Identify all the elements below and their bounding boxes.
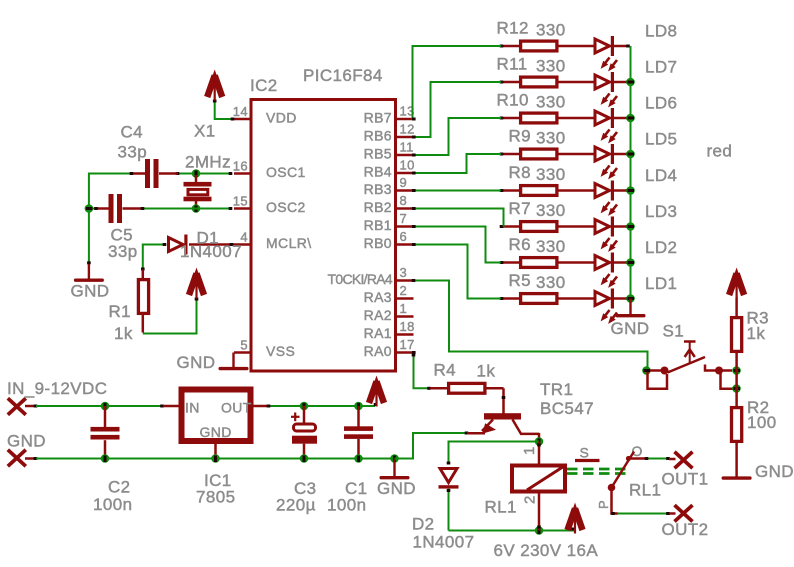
svg-text:2MHz: 2MHz — [185, 153, 231, 172]
svg-text:330: 330 — [536, 129, 566, 148]
svg-text:RB2: RB2 — [364, 199, 392, 215]
svg-text:GND: GND — [755, 462, 794, 481]
svg-text:OSC1: OSC1 — [266, 164, 306, 180]
svg-text:MCLR\: MCLR\ — [266, 235, 312, 251]
svg-text:RB5: RB5 — [364, 146, 392, 162]
svg-text:RB6: RB6 — [364, 128, 392, 144]
svg-text:LD5: LD5 — [645, 130, 677, 149]
svg-text:R11: R11 — [497, 55, 528, 74]
svg-text:18: 18 — [400, 319, 415, 334]
svg-text:100n: 100n — [327, 496, 366, 515]
svg-text:3: 3 — [400, 265, 408, 280]
svg-text:1k: 1k — [747, 324, 766, 343]
svg-text:330: 330 — [536, 273, 566, 292]
svg-text:OUT: OUT — [221, 400, 252, 416]
svg-text:10: 10 — [400, 158, 415, 173]
svg-text:7805: 7805 — [196, 488, 235, 507]
svg-text:220µ: 220µ — [276, 496, 316, 515]
svg-text:S: S — [580, 445, 590, 461]
svg-text:2: 2 — [400, 283, 408, 298]
svg-text:6V 230V 16A: 6V 230V 16A — [494, 541, 599, 560]
svg-text:IC2: IC2 — [250, 76, 278, 95]
svg-text:1N4007: 1N4007 — [413, 533, 475, 552]
svg-text:RL1: RL1 — [485, 498, 517, 517]
svg-text:PIC16F84: PIC16F84 — [303, 66, 383, 85]
svg-text:7: 7 — [400, 211, 408, 226]
svg-text:330: 330 — [536, 237, 566, 256]
svg-text:100: 100 — [747, 413, 777, 432]
svg-text:VSS: VSS — [266, 343, 295, 359]
svg-text:T0CKI/RA4: T0CKI/RA4 — [328, 271, 393, 287]
svg-text:33p: 33p — [108, 242, 138, 261]
svg-text:GND: GND — [177, 353, 216, 372]
svg-text:GND: GND — [377, 479, 416, 498]
svg-text:5: 5 — [240, 337, 248, 352]
svg-text:IN: IN — [185, 400, 200, 416]
svg-text:R12: R12 — [497, 19, 529, 38]
svg-text:11: 11 — [400, 140, 414, 155]
svg-text:OUT1: OUT1 — [662, 470, 709, 489]
svg-text:17: 17 — [400, 337, 415, 352]
svg-text:RB7: RB7 — [364, 110, 392, 126]
svg-text:GND: GND — [71, 282, 110, 301]
svg-text:RA1: RA1 — [364, 325, 392, 341]
svg-text:RB3: RB3 — [364, 181, 392, 197]
svg-text:VDD: VDD — [266, 110, 297, 126]
svg-text:GND: GND — [7, 432, 46, 451]
svg-text:RA0: RA0 — [364, 343, 392, 359]
svg-text:GND: GND — [611, 319, 650, 338]
svg-text:R5: R5 — [509, 271, 532, 290]
svg-text:330: 330 — [536, 21, 566, 40]
svg-text:100n: 100n — [93, 495, 132, 514]
svg-text:IN_9-12VDC: IN_9-12VDC — [7, 379, 107, 398]
svg-text:16: 16 — [233, 158, 248, 173]
svg-text:8: 8 — [400, 193, 408, 208]
svg-text:GND: GND — [200, 424, 232, 440]
svg-text:P: P — [596, 500, 611, 509]
svg-text:14: 14 — [233, 104, 248, 119]
svg-text:RB4: RB4 — [364, 164, 392, 180]
svg-text:BC547: BC547 — [540, 399, 594, 418]
svg-text:9: 9 — [400, 175, 408, 190]
svg-text:6: 6 — [400, 229, 408, 244]
svg-text:330: 330 — [536, 165, 566, 184]
svg-text:LD7: LD7 — [645, 58, 677, 77]
svg-text:R6: R6 — [509, 235, 532, 254]
svg-text:1N4007: 1N4007 — [180, 242, 242, 261]
svg-text:R7: R7 — [509, 199, 532, 218]
svg-text:330: 330 — [536, 201, 566, 220]
svg-text:TR1: TR1 — [540, 380, 573, 399]
svg-text:LD8: LD8 — [645, 22, 677, 41]
svg-text:2: 2 — [522, 495, 539, 504]
svg-text:33p: 33p — [118, 143, 148, 162]
svg-text:LD2: LD2 — [645, 238, 677, 257]
svg-text:1k: 1k — [114, 324, 133, 343]
svg-text:D2: D2 — [412, 515, 435, 534]
svg-text:X1: X1 — [194, 122, 216, 141]
svg-text:LD1: LD1 — [645, 274, 677, 293]
svg-text:C2: C2 — [108, 478, 131, 497]
svg-text:C4: C4 — [121, 123, 144, 142]
svg-text:RB0: RB0 — [364, 235, 392, 251]
svg-text:12: 12 — [400, 122, 415, 137]
svg-text:R8: R8 — [509, 163, 532, 182]
svg-text:RA3: RA3 — [364, 289, 392, 305]
svg-text:R1: R1 — [109, 302, 132, 321]
svg-text:RB1: RB1 — [364, 217, 392, 233]
svg-text:15: 15 — [233, 193, 248, 208]
svg-text:330: 330 — [536, 57, 566, 76]
svg-text:1: 1 — [400, 301, 408, 316]
svg-text:S1: S1 — [663, 322, 685, 341]
svg-text:red: red — [707, 142, 733, 161]
svg-text:330: 330 — [536, 93, 566, 112]
svg-text:R9: R9 — [509, 127, 532, 146]
svg-text:R10: R10 — [497, 91, 529, 110]
svg-text:LD3: LD3 — [645, 202, 677, 221]
svg-text:OUT2: OUT2 — [662, 520, 709, 539]
svg-text:OSC2: OSC2 — [266, 199, 306, 215]
svg-text:1: 1 — [521, 446, 538, 455]
svg-text:RL1: RL1 — [629, 481, 661, 500]
svg-text:R4: R4 — [434, 361, 457, 380]
svg-text:RA2: RA2 — [364, 307, 392, 323]
svg-text:1k: 1k — [477, 362, 496, 381]
svg-text:LD6: LD6 — [645, 94, 677, 113]
svg-text:LD4: LD4 — [645, 166, 677, 185]
